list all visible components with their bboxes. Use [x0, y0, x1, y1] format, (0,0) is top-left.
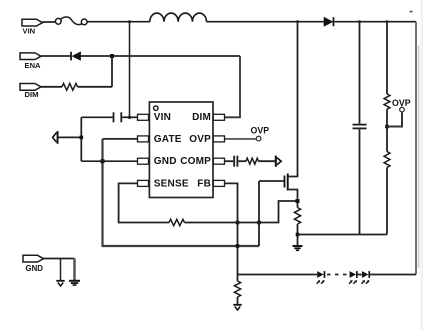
wire GND drop thick	[73, 259, 76, 281]
LED D2a	[317, 271, 326, 284]
svg-text:ENA: ENA	[25, 61, 42, 70]
junction (297.5,234.5)	[296, 233, 300, 237]
pin box SENSE (left)	[138, 180, 149, 186]
wire GND drop thin	[60, 259, 62, 281]
wire divider bottom segment	[386, 168, 388, 235]
svg-text:COMP: COMP	[180, 156, 211, 167]
wire Q1 drain to top rail	[289, 22, 298, 177]
transistor Q1 channel bar	[287, 174, 289, 191]
wire LED rail from FB node	[238, 274, 318, 276]
ground (arrow) below FB resistor	[233, 305, 241, 310]
OVP sense tap wire	[387, 112, 402, 127]
wire GND terminal right	[44, 258, 75, 260]
svg-text:OVP: OVP	[251, 126, 270, 136]
wire FB pin right then down	[225, 183, 238, 281]
capacitor C-COMP	[233, 156, 238, 167]
svg-text:VIN: VIN	[154, 112, 171, 123]
pin box GND (left)	[138, 158, 149, 164]
diode D1	[324, 17, 334, 26]
junction (81.3,137.4)	[80, 136, 84, 140]
pin box FB (right)	[213, 180, 224, 186]
OVP tap terminal circle	[400, 107, 405, 112]
junction (237.5,246)	[236, 244, 240, 248]
ground (3-bar) at GND thick drop	[69, 281, 80, 285]
wire between LED2 and LED3	[358, 274, 362, 276]
wire divider top segment	[386, 22, 388, 94]
wire output cap line lower	[359, 129, 361, 234]
pin box COMP (right)	[213, 158, 224, 164]
wire vertical x=81.3	[80, 117, 82, 161]
wire DIM terminal to resistor R-DIM	[41, 86, 62, 88]
svg-text:DIM: DIM	[25, 90, 39, 99]
fuse F1	[55, 17, 87, 25]
resistor R-DIM	[62, 83, 78, 90]
terminal DIM	[20, 84, 41, 100]
junction top rail x=359.5	[358, 20, 361, 23]
svg-text:GND: GND	[26, 264, 44, 273]
resistor R-SENSE (below IC)	[169, 219, 185, 225]
wire resistor bottom to ground	[297, 224, 299, 246]
page edge tint	[421, 0, 423, 330]
ground (arrow) at GND drop	[56, 281, 64, 286]
wire GATE pin to x=102.5	[103, 138, 138, 140]
resistor R-COMP	[246, 158, 259, 164]
OVP terminal circle	[256, 136, 261, 141]
capacitor C-VIN	[113, 112, 123, 122]
resistor R-OVP-bottom (vertical)	[384, 152, 390, 168]
junction (387,126.5)	[385, 125, 389, 129]
wire arrow to x=81.3	[59, 136, 82, 138]
wire ENA diode to corner x=240	[81, 55, 240, 57]
speck top right	[410, 11, 413, 13]
wire gate to MOSFET	[259, 180, 284, 182]
LED D2b	[349, 271, 358, 284]
junction source node (297.5,201)	[296, 199, 300, 203]
wire cap to resistor R-COMP	[238, 160, 246, 162]
wire DIM pin drop: corner (240,56) down and left to DIM pin	[225, 56, 241, 117]
wire LED3 to right edge	[370, 274, 416, 276]
pin box OVP (right)	[213, 136, 224, 142]
wire divider mid segment	[386, 109, 388, 151]
IC U1 body	[149, 102, 213, 198]
inductor L1	[150, 13, 207, 22]
junction top rail x=387	[386, 20, 389, 23]
connector arrow left (gate node)	[53, 131, 59, 144]
pin box GATE (left)	[138, 136, 149, 142]
wire resistor line to corner up to MOSFET source node	[185, 201, 298, 223]
shading right edge	[418, 45, 420, 268]
wire resistor to ground	[237, 297, 239, 304]
wire diode D1 to top-right corner	[334, 21, 416, 23]
wire SENSE pin left and down to resistor line	[119, 183, 169, 222]
pin box DIM (right)	[213, 114, 224, 120]
svg-text:GND: GND	[154, 156, 177, 167]
resistor R-source (vertical)	[294, 208, 300, 225]
connector arrow right (COMP)	[275, 156, 281, 167]
junction (259,222.5)	[257, 221, 261, 225]
junction ENA/DIM x=112	[110, 54, 114, 58]
svg-text:VIN: VIN	[23, 27, 36, 36]
wire horizontal y=234.5 to divider	[298, 234, 388, 236]
wire vertical x=129.5 top rail to VIN pin row	[129, 22, 131, 118]
wire DIM resistor to junction	[78, 86, 113, 88]
resistor R-FB-bottom (vertical)	[234, 281, 240, 297]
diode D2	[70, 52, 80, 61]
svg-text:DIM: DIM	[192, 112, 211, 123]
wire ENA terminal to diode D2	[41, 55, 70, 57]
svg-text:FB: FB	[197, 178, 211, 189]
wire fuse to inductor	[87, 21, 150, 23]
junction (237.5,222.5)	[236, 221, 240, 225]
wire output cap line upper	[359, 22, 361, 124]
wire COMP pin to cap	[225, 160, 234, 162]
capacitor C-OUT	[353, 124, 367, 130]
svg-text:SENSE: SENSE	[154, 178, 189, 189]
wire resistor to arrow	[259, 160, 276, 162]
wire vertical x=102.5 and bottom ground rail to x=259	[103, 139, 260, 246]
terminal ENA	[20, 53, 41, 70]
junction top rail x=297.5	[296, 20, 299, 23]
wire cap left to x=81.3	[81, 116, 112, 118]
wire cap to VIN pin	[122, 116, 137, 118]
wire vertical x=259 rail up to gate wire	[258, 181, 260, 246]
svg-text:OVP: OVP	[189, 134, 211, 145]
svg-text:OVP: OVP	[392, 98, 411, 108]
wire GND row x=81.3 to GND pin	[81, 160, 137, 162]
LED D2c	[361, 271, 370, 284]
junction x=129.5 on VIN row	[128, 116, 131, 119]
svg-text:GATE: GATE	[154, 134, 182, 145]
wire VIN terminal to fuse	[43, 21, 56, 23]
terminal GND	[23, 255, 44, 272]
junction top rail x=129.5	[128, 20, 131, 23]
resistor R-OVP-top (vertical)	[384, 94, 390, 109]
wire dashed between LEDs	[327, 274, 349, 276]
IC U1 pin-1 marker	[154, 106, 158, 110]
ground (3-bar) under Q1 resistor	[293, 246, 303, 250]
wire OVP pin to OVP terminal	[225, 138, 257, 140]
pin box VIN (left)	[138, 114, 149, 120]
wire Q1 source down to node	[289, 190, 298, 208]
junction (102.5,161.2)	[101, 159, 105, 163]
wire DIM up to ENA line	[111, 56, 113, 87]
wire inductor to diode D1	[207, 21, 325, 23]
terminal VIN	[22, 19, 43, 35]
transistor Q1 gate bar	[284, 176, 286, 188]
wire right edge vertical	[415, 22, 417, 275]
